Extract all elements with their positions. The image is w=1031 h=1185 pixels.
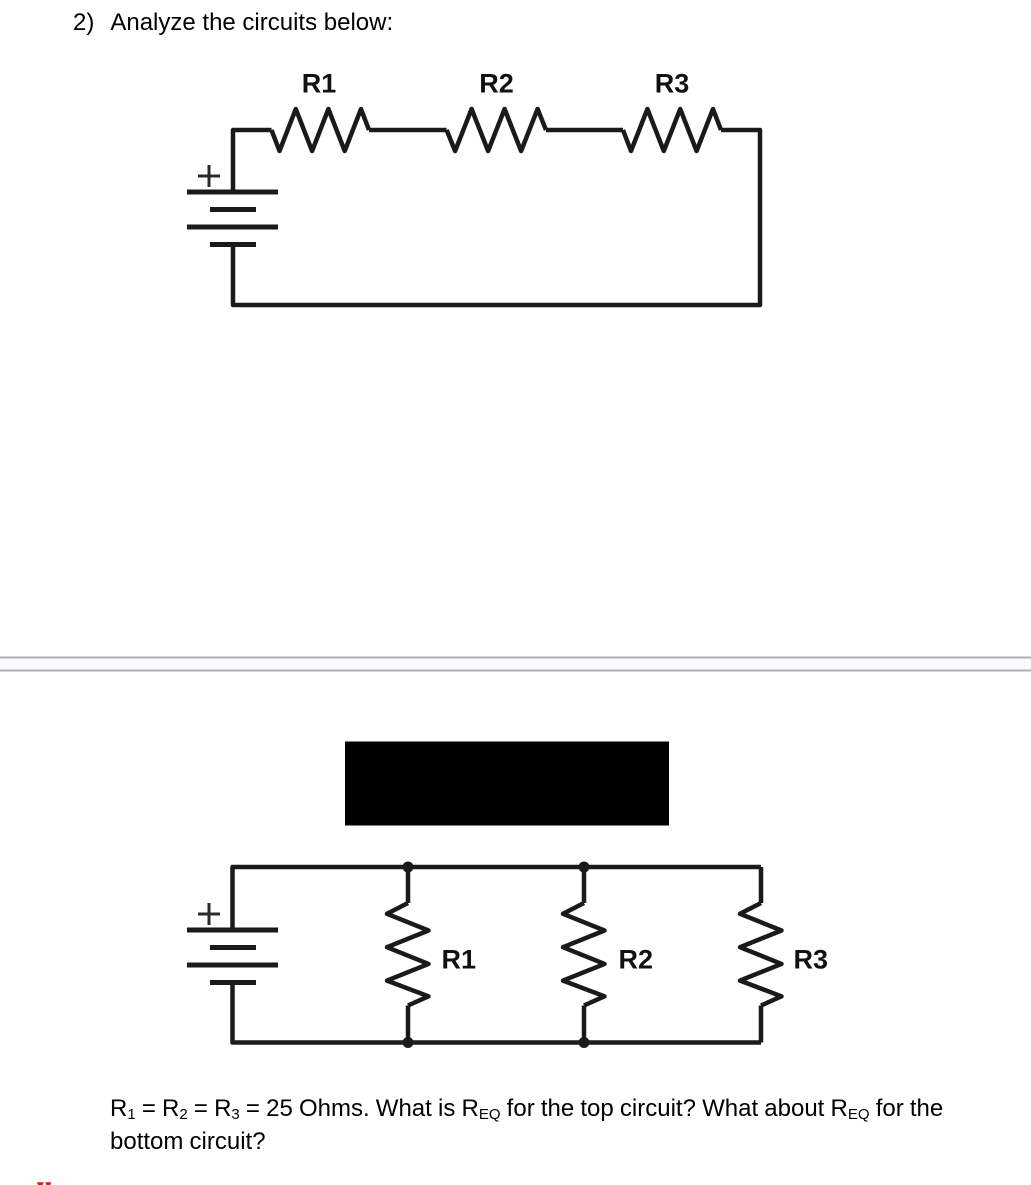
wire R1 branch lower — [406, 1006, 411, 1043]
svg-text:R2: R2 — [479, 69, 514, 99]
wire right side upper to R3 — [759, 867, 764, 903]
resistor R1 (bottom circuit) — [387, 903, 429, 1006]
red pen mark (clipped letter tops at page bottom) — [37, 1182, 52, 1185]
resistor R2 (top circuit) — [447, 109, 546, 151]
page divider band — [0, 657, 1031, 672]
label R1 (bottom) — [442, 945, 477, 975]
resistor R2 (bottom circuit) — [563, 903, 605, 1006]
label R3 (bottom) — [794, 945, 829, 975]
wire R1 branch upper — [406, 867, 411, 903]
resistor R3 (top circuit) — [623, 109, 721, 151]
battery V2 (bottom circuit) — [187, 930, 278, 983]
redaction box — [345, 742, 669, 826]
wire right side lower from R3 — [759, 1006, 764, 1043]
wire top rail (bottom circuit) — [233, 867, 762, 930]
svg-text:R3: R3 — [655, 69, 690, 99]
wire R2 branch upper — [582, 867, 587, 903]
label R1 (top) — [302, 69, 337, 99]
label R2 (top) — [479, 69, 514, 99]
wire R2 branch lower — [582, 1006, 587, 1043]
wire R2 to R3 — [546, 128, 623, 133]
question paragraph — [110, 1094, 943, 1157]
node top R1 junction — [403, 862, 414, 873]
battery V1 plus sign — [198, 165, 220, 187]
svg-text:R1: R1 — [302, 69, 337, 99]
wire bottom rail (bottom circuit) — [233, 983, 762, 1043]
resistor R3 (bottom circuit) — [740, 903, 782, 1006]
label R3 (top) — [655, 69, 690, 99]
node bottom R1 junction — [403, 1037, 414, 1048]
wire battery+ up to R1 (top circuit) — [233, 130, 272, 192]
node bottom R2 junction — [579, 1037, 590, 1048]
wire R3 right side and bottom back to battery- — [233, 130, 760, 305]
resistor R1 (top circuit) — [272, 109, 370, 151]
label R2 (bottom) — [619, 945, 654, 975]
node top R2 junction — [579, 862, 590, 873]
title text — [73, 8, 393, 38]
battery V1 (top circuit) — [187, 192, 278, 245]
svg-text:R2: R2 — [619, 945, 654, 975]
svg-text:R1: R1 — [442, 945, 477, 975]
svg-text:R3: R3 — [794, 945, 829, 975]
wire R1 to R2 — [369, 128, 447, 133]
battery V2 plus sign — [198, 903, 220, 925]
